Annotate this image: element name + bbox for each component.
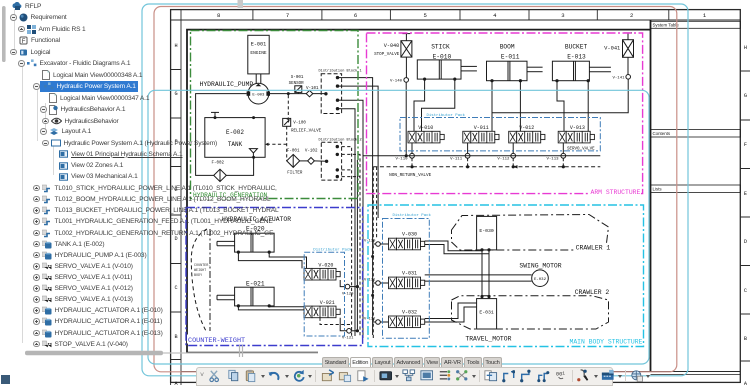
svg-text:3: 3: [561, 12, 564, 19]
engine E-001: [248, 35, 269, 74]
supply bus: [363, 155, 600, 157]
svg-text:5: 5: [424, 12, 427, 19]
svg-text:V-112: V-112: [497, 157, 510, 161]
wire filter to block2: [300, 160, 308, 162]
distributor pack box (counter-weight): [304, 252, 344, 336]
svg-text:Lists: Lists: [653, 187, 663, 192]
return bus dashed: [373, 166, 600, 168]
wires V-032 to E-031: [425, 303, 477, 319]
tree v-scrollbar: [2, 6, 6, 62]
riser x357: [356, 160, 358, 332]
cylinder wires to servo valves: [414, 79, 425, 131]
valve V-101: [306, 90, 313, 96]
svg-text:V-121: V-121: [342, 337, 354, 341]
svg-text:E-031: E-031: [479, 310, 494, 316]
servo valve V-013: [558, 131, 594, 143]
sensor S-001: [295, 86, 302, 93]
wire pump suction loop: [196, 94, 247, 176]
valve V-140: [404, 78, 409, 83]
node J1: [287, 92, 290, 95]
wire pump to distribution: [270, 93, 325, 95]
hydraulic pump E-003: [248, 83, 269, 104]
counterweight body outline: [191, 229, 207, 331]
svg-text:BOOM: BOOM: [500, 44, 515, 51]
cylinder E-021: [235, 287, 275, 306]
cylinder STICK E-010: [417, 60, 461, 79]
svg-text:1: 1: [703, 12, 707, 19]
distribution block 1: [321, 74, 341, 114]
servo valve V-012: [509, 131, 545, 143]
svg-text:E: E: [744, 191, 747, 197]
servo valve drains to bus: [411, 143, 413, 154]
svg-text:6: 6: [354, 12, 357, 19]
inner drawing border: [187, 20, 651, 372]
distributor pack box (main body): [383, 219, 430, 339]
svg-text:V-012: V-012: [519, 125, 534, 131]
svg-text:V-141: V-141: [613, 77, 626, 81]
svg-text:E-011: E-011: [501, 54, 520, 61]
svg-text:System Table: System Table: [653, 23, 680, 28]
svg-text:NON_RETURN_VALVE: NON_RETURN_VALVE: [389, 173, 432, 178]
stop valve V-041: [624, 32, 632, 34]
servo valve V-030: [389, 238, 425, 250]
svg-text:E-013: E-013: [567, 54, 586, 61]
svg-text:V-013: V-013: [570, 125, 585, 131]
servo valve V-010: [408, 131, 444, 143]
wire V-041 to pack: [492, 79, 628, 113]
check valve V-1x at 563.3: [561, 153, 566, 158]
servo valve V-020: [304, 268, 340, 280]
svg-text:CRAWLER 2: CRAWLER 2: [575, 289, 610, 296]
svg-text:STICK: STICK: [431, 44, 450, 51]
wire V-040 down: [405, 57, 407, 78]
wire F-002 to tank: [226, 157, 253, 175]
svg-text:V-041: V-041: [604, 46, 620, 52]
cylinder BUCKET E-013: [552, 61, 589, 80]
check valve V-1x at 467.6: [465, 153, 470, 158]
svg-text:V-032: V-032: [402, 309, 417, 315]
svg-text:V-030: V-030: [402, 232, 417, 238]
servo valve V-021: [304, 306, 340, 318]
h-scrollbar: [25, 351, 163, 355]
check valve V-120: [340, 280, 345, 287]
overlay cyan outer: [142, 4, 688, 376]
valve V-102: [308, 158, 315, 165]
svg-text:1: 1: [562, 371, 565, 377]
group box HYDRAULIC_GENERATION (green): [186, 31, 644, 347]
svg-text:V-132: V-132: [364, 318, 376, 322]
svg-text:BUCKET: BUCKET: [565, 44, 588, 51]
check valve V-121: [340, 318, 347, 331]
swing motor E-032: [532, 270, 549, 287]
cylinder BOOM E-011: [487, 61, 528, 80]
svg-text:V-110: V-110: [396, 157, 409, 161]
svg-text:V-011: V-011: [474, 125, 489, 131]
riser dashed x373 x376.5: [372, 167, 374, 338]
svg-text:SWING_MOTOR: SWING_MOTOR: [519, 263, 561, 270]
svg-text:V-130: V-130: [364, 240, 376, 244]
svg-text:4: 4: [493, 12, 497, 19]
top zone numbers: [253, 10, 669, 20]
svg-text:G: G: [744, 93, 747, 99]
filter F-002: [214, 169, 227, 181]
distributor pack box (ARM): [400, 118, 600, 151]
svg-text:CRAWLER 1: CRAWLER 1: [576, 245, 611, 252]
check valve V-1x at 513.2: [511, 153, 516, 158]
corner icon bottom-left: [1, 375, 10, 384]
check valve V-1x at 412: [410, 153, 415, 158]
crawler labels: [574, 244, 610, 296]
svg-text:D: D: [744, 239, 747, 245]
svg-text:V-040: V-040: [384, 43, 400, 49]
group box ARM STRUCTURE (magenta): [367, 33, 643, 194]
svg-text:V-031: V-031: [402, 271, 417, 277]
svg-text:C: C: [744, 288, 747, 294]
group box MAIN BODY STRUCTURE (cyan): [368, 205, 644, 347]
relief return dashed: [286, 126, 288, 161]
drain dashed под V-021: [320, 318, 352, 325]
servo valve V-032: [389, 316, 425, 328]
wires E-020 to V-020: [238, 252, 302, 268]
svg-text:B: B: [744, 336, 747, 342]
svg-text:V-140: V-140: [390, 80, 403, 84]
travel motor E-030: [477, 216, 497, 250]
svg-text:H: H: [744, 45, 747, 51]
overlay cyan inner: [148, 90, 649, 364]
trunk wires DB1 to risers: [342, 78, 373, 335]
svg-text:ARM STRUCTURE: ARM STRUCTURE: [591, 189, 641, 196]
pump shaft wire: [255, 74, 257, 84]
distribution block 2: [321, 142, 341, 180]
node tank top: [252, 116, 255, 119]
zone letters left/right: [174, 43, 747, 386]
servo valve V-011: [463, 131, 499, 143]
svg-text:E-030: E-030: [479, 228, 494, 234]
system table column: [651, 21, 741, 374]
svg-text:E-010: E-010: [433, 54, 452, 61]
tank strainer: [249, 149, 257, 157]
svg-text:F: F: [744, 142, 747, 148]
svg-text:STOP_VALVE: STOP_VALVE: [374, 53, 400, 57]
svg-text:Distributor Pack: Distributor Pack: [427, 113, 466, 118]
tank vent: [214, 112, 216, 117]
svg-text:V-111: V-111: [450, 157, 463, 161]
crawler 2 outline: [452, 296, 609, 329]
svg-text:A: A: [744, 381, 748, 385]
svg-text:2: 2: [630, 12, 633, 19]
overlay salmon: [154, 7, 677, 372]
svg-text:F: F: [22, 39, 26, 45]
svg-text:V-010: V-010: [418, 125, 433, 131]
svg-text:MAIN BODY STRUCTURE: MAIN BODY STRUCTURE: [570, 339, 643, 346]
filter F-001: [287, 154, 300, 167]
travel motor E-031: [477, 299, 497, 329]
tank E-002: [205, 118, 265, 158]
svg-text:Distributor Pack: Distributor Pack: [393, 213, 432, 218]
check valves V-130/131/132: [376, 242, 381, 247]
svg-text:V-131: V-131: [364, 279, 376, 283]
cylinder E-020: [235, 233, 275, 252]
trunk wires DB2 (dashed): [342, 147, 352, 336]
group box COUNTER-WEIGHT (blue): [186, 208, 363, 346]
top splitter tick: [238, 0, 244, 8]
svg-text:V-113: V-113: [547, 157, 560, 161]
svg-text:E-032: E-032: [534, 278, 547, 282]
servo valve V-031: [389, 277, 425, 289]
svg-text:Contents: Contents: [653, 131, 671, 136]
drawing sheet outer border: [171, 10, 741, 383]
relief valve pilot wire (dashed): [287, 95, 289, 118]
stop valve V-040: [402, 33, 410, 35]
svg-text:V-120: V-120: [342, 292, 354, 296]
svg-text:TRAVEL_MOTOR: TRAVEL_MOTOR: [465, 335, 511, 342]
crawler 1 outline: [452, 215, 609, 251]
wires E-021 to V-021: [238, 306, 304, 310]
zone band lines: [171, 10, 741, 385]
wires V-030 to E-030: [425, 241, 482, 251]
valve V-141: [626, 75, 631, 80]
relief valve V-100: [283, 118, 291, 126]
